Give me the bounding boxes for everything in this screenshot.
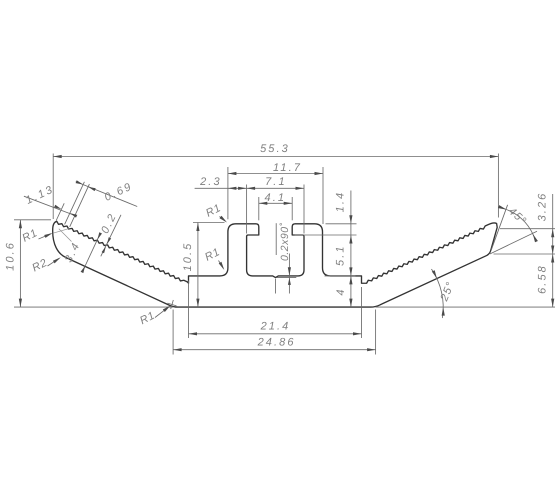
svg-text:5.1: 5.1 — [335, 244, 347, 266]
svg-text:2.3: 2.3 — [199, 176, 222, 188]
svg-text:R1: R1 — [20, 227, 39, 245]
svg-text:3.26: 3.26 — [537, 192, 549, 222]
svg-text:11.7: 11.7 — [273, 162, 302, 174]
svg-text:3.4: 3.4 — [63, 240, 83, 265]
svg-text:10.5: 10.5 — [182, 242, 194, 272]
svg-text:4.1: 4.1 — [265, 192, 287, 204]
svg-text:0.2: 0.2 — [99, 211, 119, 236]
svg-text:0.2x90˚: 0.2x90˚ — [279, 222, 291, 261]
svg-text:R2: R2 — [30, 257, 49, 275]
svg-text:10.6: 10.6 — [5, 241, 17, 271]
svg-text:24.86: 24.86 — [257, 336, 296, 348]
svg-text:R1: R1 — [138, 309, 157, 327]
svg-text:1.4: 1.4 — [335, 191, 347, 213]
svg-text:55.3: 55.3 — [260, 143, 290, 155]
svg-text:45°: 45° — [506, 205, 529, 227]
svg-text:21.4: 21.4 — [260, 320, 291, 332]
svg-text:4: 4 — [335, 287, 347, 295]
svg-text:25°: 25° — [438, 280, 457, 304]
svg-text:1.13: 1.13 — [24, 183, 56, 206]
svg-text:6.58: 6.58 — [537, 264, 549, 294]
svg-text:0.69: 0.69 — [103, 180, 135, 203]
svg-text:R1: R1 — [203, 246, 222, 264]
svg-text:7.1: 7.1 — [265, 176, 287, 188]
